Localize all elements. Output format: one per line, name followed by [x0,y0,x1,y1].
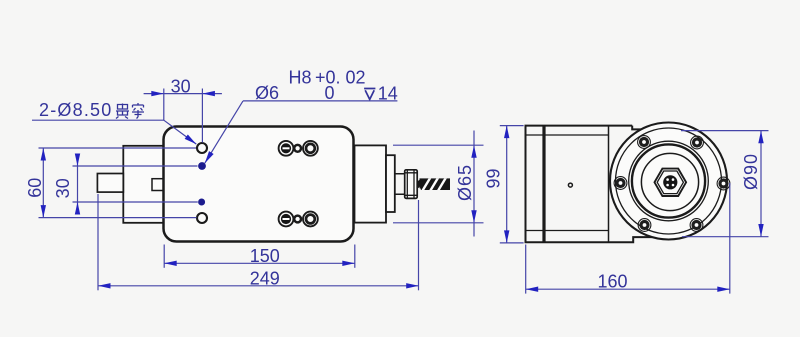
flange inner circle b [632,144,705,217]
glyph 穿 (hand drawn) [132,103,144,119]
collet shaft [395,174,405,194]
leader shelf 8.50 [32,119,164,121]
svg-text:99: 99 [484,168,504,188]
drill bit with spiral flutes [417,178,450,190]
svg-text:Ø90: Ø90 [741,153,761,190]
center hex nut inner [657,171,683,194]
key tab on body left face [152,179,164,191]
dimension Phi65 (drill flange) [393,131,484,237]
bolt left [614,177,627,190]
screw group bottom: middle small hole [294,216,301,223]
motor shaft stub (left view) [97,174,123,193]
leader shelf phi6 [243,100,397,102]
bolt bottom-left [638,219,651,232]
dimension 60 vertical (left) [39,148,197,218]
right view gearbox body outline [526,126,653,243]
front flange step 1 [355,145,387,222]
screw group bottom: right washer hole [303,212,318,227]
leader arrow to top hole [164,120,197,144]
bolt bottom-right [690,219,703,232]
leader arrow to blue hole [205,101,243,163]
svg-text:249: 249 [250,268,280,288]
front flange step 2 [386,155,395,212]
bolt top-left [638,136,651,149]
svg-text:160: 160 [597,271,627,291]
svg-text:0: 0 [325,83,335,103]
flange inner circle a [629,141,709,221]
dimension 99 [500,126,524,243]
bolt top-right [691,136,704,149]
svg-text:H8: H8 [289,67,312,87]
dimension 150 [164,245,355,268]
mounting block (left view rear step) [123,146,164,223]
label Phi6 H8 depth 14 [202,67,397,164]
flange rim circle [616,128,722,234]
center hex nut outer [655,169,687,196]
svg-text:Ø6: Ø6 [255,83,279,103]
screw group top: middle small hole [294,145,301,152]
svg-text:Ø65: Ø65 [455,164,475,201]
right view inner bottom line [526,230,609,232]
hole bottom-left (open, 8.5) [197,213,207,223]
label 2-Phi8.50 through-hole [32,100,198,146]
dimension 30 horizontal (top) [144,89,222,143]
collet nut (side view) [405,170,418,199]
small dot on face [568,183,572,187]
dimension 249 [98,194,419,290]
flange outer circle [610,123,727,240]
svg-text:60: 60 [25,178,45,198]
right view right face line [608,126,610,243]
hole top-left (open, 8.5) [197,143,207,153]
svg-text:30: 30 [171,77,191,97]
screw group top: right washer hole [303,141,318,156]
screw group bottom: slotted screw [279,212,294,227]
right view inner top line [526,134,609,136]
svg-text:30: 30 [53,178,73,198]
hole upper blue (6mm tapped) [198,162,206,170]
depth symbol [364,89,375,100]
center drive disc with 4 holes [663,175,677,189]
right view thick partition line [542,126,545,243]
spindle main body (left view rounded rectangle) [164,127,354,242]
svg-text:150: 150 [250,246,280,266]
hole lower blue (6mm tapped) [198,199,205,206]
screw group top: slotted screw [279,141,294,156]
glyph 贯 (hand drawn) [116,104,129,119]
dimension 160 [526,183,730,294]
svg-text:+0. 02: +0. 02 [315,67,366,87]
svg-text:2-Ø8.50: 2-Ø8.50 [39,100,112,120]
dimension 30 vertical (left) [73,154,198,215]
flange recess circle [641,153,698,210]
dimension Phi90 [681,131,769,237]
bolt right [717,177,730,190]
